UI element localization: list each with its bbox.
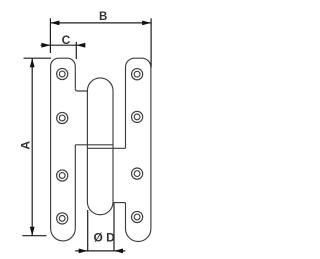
dim B ext right (150, 18, 152, 67)
svg-text:C: C (62, 33, 71, 47)
svg-text:B: B (99, 11, 107, 23)
dim A line (31, 58, 33, 236)
arrow D left (79, 249, 88, 254)
arrow D right (114, 249, 123, 254)
dim A ext top (24, 57, 52, 59)
arrow B left (50, 21, 59, 26)
svg-text:A: A (19, 141, 33, 150)
arrow C left (41, 43, 50, 48)
svg-text:Ø D: Ø D (94, 230, 116, 244)
arrow A bottom (30, 227, 35, 236)
dim B ext left (49, 18, 51, 53)
screw hole R3 (132, 168, 143, 179)
right leaf plate (126, 58, 151, 241)
dim D ext left (87, 210, 89, 251)
knuckle joint line lower (87, 147, 125, 149)
arrow B right (142, 21, 151, 26)
barrel knuckle (87, 78, 113, 215)
arrow A top (30, 58, 35, 67)
dim B line (50, 22, 151, 24)
right leaf step wire (113, 202, 126, 204)
left leaf plate (51, 58, 76, 241)
left leaf step wire (75, 89, 87, 91)
knuckle joint line upper (75, 144, 113, 146)
screw hole L4 (57, 213, 68, 224)
dim A ext bottom (22, 235, 46, 237)
screw hole R2 (132, 111, 143, 122)
dim C line (41, 44, 85, 46)
screw hole L3 (57, 170, 68, 181)
arrow C right (76, 43, 85, 48)
dim C ext right (75, 42, 77, 59)
dim D line (75, 250, 125, 252)
screw hole L2 (57, 112, 68, 123)
screw hole R1 (132, 69, 143, 80)
dim D ext right (113, 203, 115, 251)
screw hole L1 (57, 68, 68, 79)
screw hole R4 (132, 211, 143, 222)
